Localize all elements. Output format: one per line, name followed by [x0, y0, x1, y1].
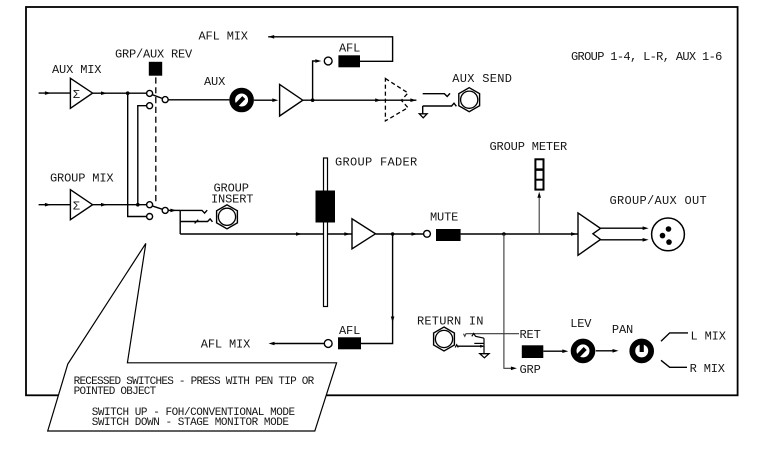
amp U2 (aux send amp)	[280, 84, 303, 116]
dashed balanced driver (aux send)	[385, 79, 408, 121]
wire: through dashed driver	[415, 99, 417, 101]
jack RETURN IN ring contact	[455, 343, 485, 347]
switch cap MUTE	[436, 229, 461, 241]
switch S1 (aux select)	[147, 90, 169, 108]
wire: group branch up to S1 lower throw	[138, 106, 147, 205]
svg-text:GRP/AUX REV: GRP/AUX REV	[115, 48, 193, 62]
wire: aux branch down to S2 lower throw	[128, 93, 147, 216]
frame border	[26, 7, 738, 395]
wire: AFL to AFL MIX bus (bottom)	[269, 342, 325, 346]
svg-text:AUX SEND: AUX SEND	[452, 72, 512, 86]
jack socket RETURN IN	[434, 327, 455, 351]
svg-text:INSERT: INSERT	[211, 193, 253, 207]
amp U4 (group amp)	[352, 219, 376, 249]
node: AFL (group) junction	[391, 232, 395, 236]
wire: driver hot output to XLR	[601, 226, 649, 230]
svg-text:LEV: LEV	[570, 317, 592, 331]
svg-text:AFL MIX: AFL MIX	[201, 338, 250, 352]
svg-text:POINTED OBJECT: POINTED OBJECT	[74, 386, 157, 398]
meter GROUP METER	[535, 159, 543, 189]
wire: S2 pole to insert	[168, 209, 180, 234]
jack AUX SEND sleeve contact	[423, 103, 457, 114]
svg-text:Σ: Σ	[73, 88, 80, 102]
node: aux branch junction	[126, 91, 130, 95]
pot LEV	[574, 342, 593, 361]
svg-text:AFL MIX: AFL MIX	[199, 29, 248, 43]
wire: AFL pickup riser	[313, 59, 322, 100]
fader knob	[316, 191, 336, 223]
jack socket AUX SEND	[459, 88, 480, 112]
wire: PAN to R MIX	[661, 360, 687, 367]
wire: driver cold output to XLR	[601, 238, 649, 242]
output driver (balanced)	[578, 213, 601, 255]
wire: PAN to L MIX	[661, 333, 688, 341]
arrow: AFL MIX bus direction	[268, 35, 274, 39]
wire: MUTE to output driver	[461, 232, 578, 236]
label GROUP INSERT	[211, 181, 253, 206]
svg-text:L MIX: L MIX	[691, 330, 726, 344]
svg-text:Σ: Σ	[73, 200, 80, 214]
jack socket GROUP INSERT	[217, 205, 238, 229]
svg-text:SWITCH DOWN - STAGE MONITOR MO: SWITCH DOWN - STAGE MONITOR MODE	[92, 417, 290, 429]
pot AUX level	[232, 91, 251, 110]
svg-text:AFL: AFL	[339, 324, 360, 338]
wire: GROUP amp output to switch S2	[93, 203, 147, 207]
switch MUTE contact	[424, 230, 431, 237]
svg-text:GRP: GRP	[520, 363, 541, 377]
svg-text:GROUP/AUX OUT: GROUP/AUX OUT	[610, 194, 708, 208]
wire: input to GROUP summing amp	[39, 203, 71, 207]
svg-text:AUX: AUX	[204, 75, 225, 89]
switch cap AFL (aux)	[338, 55, 360, 67]
jack GROUP INSERT return contact	[180, 219, 212, 224]
wire: U2 output to AUX SEND jack	[303, 98, 417, 102]
svg-text:RETURN IN: RETURN IN	[417, 314, 484, 328]
jack GROUP INSERT send contact	[180, 210, 207, 213]
wire: group AFL drop	[361, 234, 394, 344]
svg-text:R MIX: R MIX	[690, 362, 725, 376]
switch AFL (group) contact	[324, 340, 332, 348]
switch cap RET/GRP	[522, 345, 544, 358]
wire: insert to group fader	[180, 232, 352, 236]
wire: AUX amp output to switch S1	[93, 91, 147, 95]
wire: AFL switch to AFL MIX bus	[268, 37, 392, 62]
wire: jack normal to ground	[483, 338, 485, 354]
svg-text:GROUP FADER: GROUP FADER	[335, 155, 418, 169]
pot PAN	[632, 341, 651, 361]
wire: LEV to PAN	[596, 349, 619, 353]
wire: group feed drop to GRP throw	[504, 234, 517, 370]
svg-text:RET: RET	[520, 328, 541, 342]
wire: switch S1 pole to AUX pot	[168, 99, 229, 101]
svg-text:GROUP MIX: GROUP MIX	[50, 171, 113, 185]
switch AFL (aux) contact	[324, 57, 332, 65]
svg-text:GROUP 1-4, L-R, AUX 1-6: GROUP 1-4, L-R, AUX 1-6	[571, 50, 722, 64]
jack AUX SEND tip contact	[423, 93, 450, 96]
switch cap AFL (group)	[338, 337, 361, 349]
wire: U4 output to MUTE	[376, 232, 424, 236]
summing amp U3 GROUP MIX	[70, 190, 92, 220]
svg-text:PAN: PAN	[612, 323, 633, 337]
connector XLR GROUP/AUX OUT	[652, 218, 685, 251]
summing amp U1 AUX MIX	[70, 78, 92, 108]
dashed mechanical link GRP/AUX REV to switches	[155, 77, 157, 203]
wire: AUX pot to amp U2	[254, 98, 278, 102]
ground (aux send jack sleeve)	[419, 114, 427, 118]
svg-text:MUTE: MUTE	[430, 211, 458, 225]
wire: meter feed riser	[537, 192, 541, 234]
svg-text:GROUP METER: GROUP METER	[490, 140, 568, 154]
wire: input to AUX summing amp	[39, 91, 71, 95]
node: AFL pickup junction	[311, 98, 315, 102]
ground (return jack)	[480, 354, 489, 358]
fader track	[324, 158, 328, 307]
switch cap GRP/AUX REV (recessed switch)	[149, 62, 162, 76]
jack RETURN IN tip contact and wire to RET	[464, 334, 520, 339]
node: return/meter junction	[502, 232, 506, 236]
callout bubble	[48, 243, 337, 431]
wire: RET/GRP switch to LEV pot	[543, 349, 568, 353]
node: group branch junction	[136, 203, 140, 207]
svg-text:AUX MIX: AUX MIX	[52, 63, 101, 77]
svg-text:AFL: AFL	[339, 42, 360, 56]
switch S2 (group select)	[147, 202, 169, 220]
